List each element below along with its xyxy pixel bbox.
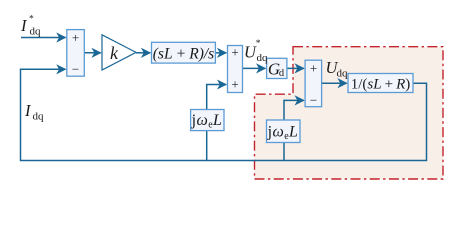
summer S1 (67, 30, 85, 77)
svg-text:d: d (279, 68, 285, 79)
svg-text:k: k (110, 43, 119, 63)
svg-text:jωeL: jωeL (191, 112, 223, 131)
svg-text:dq: dq (30, 26, 42, 38)
svg-text:I: I (24, 101, 32, 120)
wire: Gd to summer S3 (287, 67, 304, 69)
svg-text:(sL + R)/s: (sL + R)/s (153, 45, 214, 62)
svg-text:1/(sL + R): 1/(sL + R) (351, 77, 411, 93)
wire: I*dq input arrow into summer S1 (21, 37, 66, 39)
wire: jweL block1 to S2 plus (207, 85, 227, 110)
summer S2 (228, 46, 243, 93)
wire: k to (sL+R)/s block (136, 52, 150, 54)
block (sL+R)/s (152, 42, 216, 63)
svg-text:*: * (256, 39, 261, 49)
svg-text:dq: dq (337, 67, 349, 79)
gain triangle k (102, 35, 136, 70)
svg-text:+: + (231, 45, 238, 60)
plant model dash-dot red border (255, 47, 444, 179)
svg-text:−: − (72, 62, 79, 77)
svg-text:I: I (20, 16, 28, 35)
svg-text:+: + (72, 30, 79, 45)
svg-text:dq: dq (257, 52, 269, 64)
block jweL 1 (191, 110, 224, 131)
svg-text:+: + (231, 77, 238, 92)
wire: feedback tap up into jweL block 2 (283, 143, 285, 161)
svg-text:+: + (310, 60, 317, 75)
block Gd (267, 58, 287, 78)
wire: (sL+R)/s to summer S2 (215, 52, 226, 54)
svg-text:*: * (29, 15, 34, 25)
wire: S3 to 1/(sL+R) block (Udq) (322, 82, 347, 84)
wire: S1 to gain k (84, 52, 101, 54)
wire: S2 to Gd (U*dq) (243, 67, 266, 69)
svg-text:−: − (310, 92, 317, 107)
block jweL 2 (267, 120, 301, 143)
svg-text:dq: dq (33, 111, 45, 123)
plant model dashed region fill (255, 47, 444, 179)
wire: feedback path from 1/(sL+R) output around bottom into S1 minus (21, 69, 427, 160)
svg-text:jωeL: jωeL (267, 124, 299, 143)
wire: jweL block2 to S3 minus (284, 100, 304, 120)
block 1/(sL+R) (348, 74, 413, 93)
wire: feedback tap up into jweL block 1 (206, 131, 208, 161)
summer S3 (305, 60, 322, 106)
